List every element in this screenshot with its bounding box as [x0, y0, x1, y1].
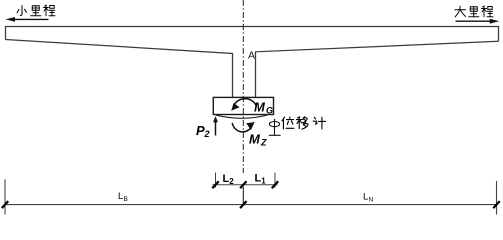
bearing block rectangle	[213, 97, 273, 114]
svg-text:B: B	[124, 196, 128, 203]
arrow right (large mileage direction)	[456, 19, 500, 24]
svg-text:L: L	[118, 191, 123, 202]
label MG	[254, 100, 273, 116]
displacement gauge symbol	[269, 119, 281, 135]
moment arc MG	[231, 99, 256, 111]
centerline (dash-dot)	[242, 0, 244, 173]
moment arc MZ	[232, 122, 255, 132]
label 小里程 (top-left)	[17, 5, 55, 16]
dimension line LB/LN (lower, full width)	[5, 180, 497, 215]
svg-text:2: 2	[204, 129, 210, 139]
arrow left (small mileage direction)	[6, 17, 49, 22]
girder outline (haunched beam)	[6, 27, 499, 98]
label P2	[196, 123, 210, 139]
ticks lower dim	[2, 201, 500, 208]
svg-text:2: 2	[229, 177, 234, 186]
svg-text:L: L	[363, 192, 368, 203]
dimension line L2/L1 (upper)	[213, 173, 278, 188]
svg-text:G: G	[266, 106, 273, 116]
force arrow P2	[213, 116, 218, 135]
svg-text:M: M	[249, 132, 261, 147]
label 位移计	[282, 117, 325, 129]
bearing sag curve under block	[216, 115, 267, 118]
svg-text:1: 1	[261, 177, 266, 186]
ticks upper dim	[212, 181, 278, 188]
svg-text:M: M	[254, 100, 266, 115]
svg-text:Z: Z	[260, 138, 267, 148]
label 大里程 (top-right)	[455, 6, 493, 17]
label MZ	[249, 132, 267, 148]
svg-text:A: A	[248, 50, 255, 62]
svg-text:N: N	[369, 196, 374, 203]
centerline connector between dim lines	[242, 187, 244, 205]
